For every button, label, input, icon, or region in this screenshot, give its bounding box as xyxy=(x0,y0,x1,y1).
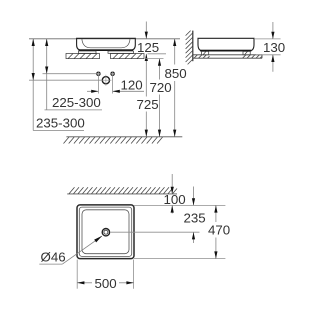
dimension 235 bottom arrow with tail xyxy=(193,232,195,243)
extension stub at counter top xyxy=(148,53,167,55)
basin middle rim (plan) xyxy=(79,207,131,256)
dimension 130 bottom arrow with tail xyxy=(272,55,274,72)
dimension 120 right line with arrow xyxy=(113,90,144,92)
countertop hatch right (side) xyxy=(243,55,263,58)
mixer-hole level extension line xyxy=(29,79,102,81)
dimension 725 vertical line upper xyxy=(145,54,147,97)
hole extension line down right xyxy=(112,76,114,94)
left foot pad (side) xyxy=(202,51,209,54)
dimension 235-300 top arrow xyxy=(32,39,35,46)
svg-text:130: 130 xyxy=(263,40,285,55)
svg-text:125: 125 xyxy=(137,40,159,55)
svg-text:725: 725 xyxy=(137,97,159,112)
dimension 235-300 vertical line xyxy=(32,39,34,131)
dimension 120 left arrow and tail xyxy=(87,90,98,92)
right foot pad (side) xyxy=(243,51,250,54)
dimension 500 line left segment xyxy=(77,282,92,284)
countertop bottom line (side) xyxy=(193,57,262,59)
countertop right edge (side) xyxy=(261,55,263,58)
svg-text:100: 100 xyxy=(164,192,186,207)
basin outer rim (plan) xyxy=(77,205,134,259)
svg-text:720: 720 xyxy=(150,80,172,95)
square bottom extension line right xyxy=(134,258,225,260)
dimension 720 vertical line upper xyxy=(159,59,161,80)
wall hatching (plan) xyxy=(69,187,177,194)
wall hatching (side view) xyxy=(186,31,193,65)
small faucet hole left xyxy=(96,72,100,76)
small faucet hole right xyxy=(110,72,114,76)
floor hatching xyxy=(64,137,163,144)
floor line xyxy=(66,136,182,138)
svg-text:500: 500 xyxy=(95,276,117,291)
dimension 235-300 bottom arrow xyxy=(32,73,35,80)
dimension 500 left arrow xyxy=(77,281,84,284)
right foot pad (front) xyxy=(108,51,134,53)
basin inner rim (plan) xyxy=(82,210,129,254)
dimension 850 vertical line upper xyxy=(174,39,176,65)
Ø46 leader line xyxy=(62,236,101,264)
square corner extension line down right xyxy=(133,260,135,289)
dimension 470 bottom arrow xyxy=(214,251,217,258)
svg-text:225-300: 225-300 xyxy=(52,95,101,110)
dimension 725 vertical line lower xyxy=(145,112,147,137)
dimension 130 top arrow with tail xyxy=(272,22,274,39)
dimension 470 up arrow xyxy=(214,205,217,212)
square corner extension line down left xyxy=(76,260,78,289)
dimension 850 bottom arrow xyxy=(173,130,176,137)
basin bottom thick band (side) xyxy=(200,50,251,52)
label 225-300 underline xyxy=(45,109,103,111)
counter bottom extension stub xyxy=(146,58,164,60)
dimension 500 right arrow xyxy=(126,281,133,284)
dimension 720 up arrow xyxy=(158,59,161,66)
dimension 500 line right segment xyxy=(119,282,134,284)
svg-text:470: 470 xyxy=(208,223,230,238)
svg-text:Ø46: Ø46 xyxy=(41,250,66,265)
countertop hatched left segment (front) xyxy=(66,54,100,59)
basin outline (front) xyxy=(77,38,136,50)
center mixer hole xyxy=(100,75,111,86)
basin outline (side) xyxy=(198,38,254,51)
dimension 850 vertical line lower xyxy=(174,81,176,137)
dimension 725 bottom arrow xyxy=(145,130,148,137)
basin bottom thick band xyxy=(79,49,133,51)
drain outer circle xyxy=(102,229,109,236)
dimension 720 bottom arrow xyxy=(158,130,161,137)
small-holes level extension line xyxy=(43,73,97,75)
Ø46 leader arrow xyxy=(94,236,102,243)
dimension 850 up arrow xyxy=(173,39,176,46)
wall line (side view) xyxy=(192,31,194,62)
dimension 235 top arrow with tail xyxy=(193,187,195,206)
svg-text:235: 235 xyxy=(184,211,206,226)
basin top extension line (side) xyxy=(254,38,281,40)
wall line (plan) xyxy=(67,193,177,195)
label Ø46 underline xyxy=(39,263,62,265)
svg-text:235-300: 235-300 xyxy=(36,116,85,131)
dimension 470 vertical line upper xyxy=(215,205,217,222)
drain inner circle xyxy=(104,230,108,234)
basin inner bowl curve left xyxy=(82,39,130,48)
countertop top extension line (side) xyxy=(256,54,281,56)
rim top extension line xyxy=(29,38,180,40)
dimension 100 bottom arrow with tail xyxy=(171,205,173,213)
hole extension line down left xyxy=(97,76,99,94)
dimension 225-300 top arrow xyxy=(45,39,48,46)
dimension 225-300 bottom arrow xyxy=(45,67,48,74)
svg-text:850: 850 xyxy=(165,66,187,81)
svg-text:120: 120 xyxy=(121,78,143,93)
left foot pad (front) xyxy=(79,51,97,53)
dimension 125 top arrow with tail xyxy=(145,22,147,39)
countertop top line (side) xyxy=(193,54,262,56)
dimension 225-300 vertical line xyxy=(46,39,48,110)
label 235-300 underline xyxy=(33,129,84,131)
dimension 720 vertical line lower xyxy=(159,95,161,137)
dimension 470 vertical line lower xyxy=(215,238,217,259)
countertop hatched right segment (front) xyxy=(111,54,145,59)
dimension 725 up arrow xyxy=(145,54,148,61)
drain center extension line right xyxy=(111,231,200,233)
dimension 100 top arrow with tail xyxy=(171,174,173,194)
square top extension line right xyxy=(134,204,225,206)
countertop hatch left (side) xyxy=(194,55,210,58)
